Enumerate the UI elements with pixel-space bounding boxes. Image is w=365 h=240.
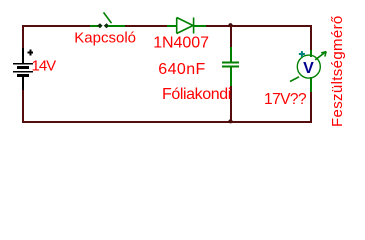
- wire: top rail switch to diode: [125, 25, 167, 27]
- wire: top rail diode to right corner: [206, 25, 312, 27]
- voltmeter arrow upper-right: [315, 52, 326, 60]
- wire: right rail upper (corner to voltmeter): [310, 25, 312, 50]
- voltmeter plus polarity mark (teal): [299, 51, 305, 57]
- wire: switch left lead (green): [90, 25, 98, 27]
- diode D1 (1N4007): [177, 18, 194, 34]
- wire: diode anode lead (green): [167, 25, 177, 27]
- svg-text:640nF: 640nF: [158, 61, 205, 78]
- wire: capacitor top lead green: [230, 47, 232, 62]
- svg-text:1N4007: 1N4007: [153, 35, 209, 52]
- svg-text:14V: 14V: [32, 58, 57, 75]
- battery bottom lead (black): [22, 77, 24, 90]
- svg-text:Fóliakondi: Fóliakondi: [162, 86, 231, 103]
- wire: left rail lower (battery to bottom corner): [22, 90, 24, 123]
- switch left contact arrow: [97, 23, 102, 28]
- battery plate long 2: [13, 71, 33, 73]
- battery B1 14V: [13, 48, 33, 90]
- capacitor C1 (640nF): [222, 63, 239, 67]
- wire: switch right lead (green): [108, 25, 125, 27]
- battery top lead (black): [22, 48, 24, 63]
- node: junction top of capacitor: [228, 23, 232, 27]
- battery plus sign: [27, 52, 33, 54]
- switch right contact arrow: [104, 23, 109, 28]
- wire: left rail upper (corner to battery): [22, 25, 24, 48]
- wire: voltmeter bottom lead green: [310, 77, 312, 92]
- svg-text:Kapcsoló: Kapcsoló: [74, 29, 136, 46]
- voltmeter circle: [297, 55, 320, 78]
- svg-text:V: V: [303, 60, 314, 77]
- wire: voltmeter top lead green: [310, 50, 312, 57]
- node: junction bottom of capacitor: [228, 119, 232, 123]
- wire: capacitor bottom lead green: [230, 67, 232, 86]
- voltmeter arrow lower-left tail: [290, 77, 299, 82]
- switch blade: [104, 12, 112, 23]
- wire: right rail lower (voltmeter to bottom corner): [310, 92, 312, 123]
- battery plate short 2: [17, 74, 29, 77]
- battery plate long 1: [13, 63, 33, 65]
- wire: top rail left segment (battery + to switch): [22, 25, 91, 27]
- svg-text:Feszültségmérő: Feszültségmérő: [329, 15, 346, 127]
- wire: diode cathode lead (green): [194, 25, 206, 27]
- svg-text:17V??: 17V??: [264, 91, 307, 108]
- wire: capacitor bottom lead maroon: [230, 86, 232, 121]
- wire: capacitor top lead maroon: [230, 26, 232, 47]
- wire: bottom rail: [22, 121, 312, 123]
- battery plate short 1: [17, 66, 29, 69]
- voltmeter U1: [290, 51, 326, 81]
- switch S1 (Kapcsoló, open): [97, 12, 111, 28]
